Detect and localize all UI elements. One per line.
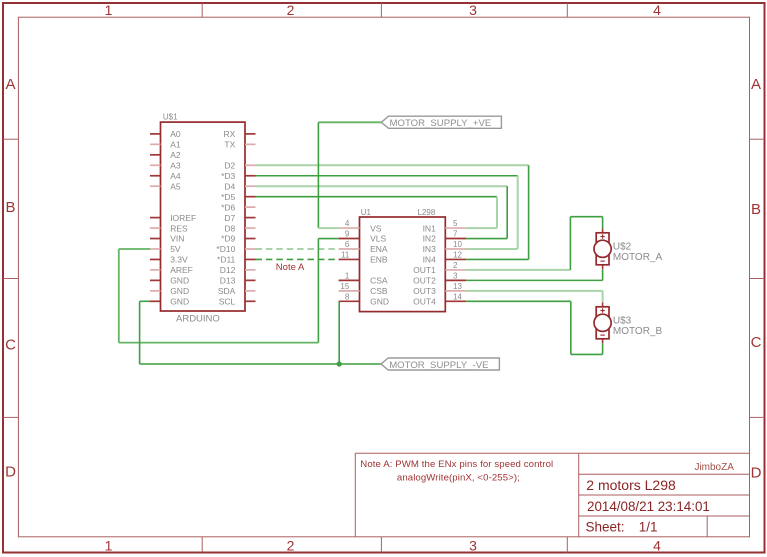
Arduino pin TX (right) — [245, 143, 256, 145]
svg-text:C: C — [5, 337, 16, 354]
Arduino pin D7 (right) — [245, 217, 256, 219]
motor U$2 MOTOR_A — [594, 229, 611, 270]
Arduino pin VIN (left) — [150, 238, 161, 240]
wire OUT4 to MOTOR_B - — [466, 300, 571, 302]
svg-text:MOTOR_SUPPLY_+VE: MOTOR_SUPPLY_+VE — [390, 118, 492, 129]
svg-text:*D9: *D9 — [221, 234, 235, 244]
svg-text:Note A: Note A — [276, 262, 305, 273]
svg-text:RX: RX — [223, 129, 235, 139]
Arduino pin A1 (left) — [150, 143, 161, 145]
svg-text:7: 7 — [453, 230, 458, 239]
junction dot — [337, 361, 342, 366]
Arduino pin A0 (left) — [150, 133, 161, 135]
svg-text:*D5: *D5 — [221, 192, 235, 202]
wire *D11 to ENB (dashed) — [256, 258, 339, 260]
Arduino pin IOREF (left) — [150, 217, 161, 219]
L298 pin 12 IN4 (right) — [445, 258, 466, 260]
svg-text:1: 1 — [105, 538, 113, 554]
wire OUT3 to MOTOR_B + — [466, 290, 602, 292]
svg-text:5: 5 — [453, 219, 458, 228]
svg-text:D2: D2 — [224, 160, 235, 170]
svg-text:2: 2 — [453, 261, 458, 270]
svg-text:12: 12 — [453, 250, 462, 259]
Arduino pin GND (left) — [150, 290, 161, 292]
L298 pin 4 VS (left) — [339, 227, 360, 229]
svg-text:U$3: U$3 — [613, 315, 632, 326]
svg-text:Sheet:: Sheet: — [586, 520, 625, 535]
Arduino pin A4 (left) — [150, 175, 161, 177]
svg-text:*D11: *D11 — [217, 255, 236, 265]
svg-text:D12: D12 — [220, 265, 236, 275]
svg-text:GND: GND — [170, 286, 189, 296]
svg-text:MOTOR_B: MOTOR_B — [613, 326, 663, 337]
svg-text:B: B — [5, 199, 15, 216]
svg-text:A4: A4 — [170, 171, 181, 181]
svg-text:OUT2: OUT2 — [413, 276, 436, 286]
frame row tick marks — [3, 138, 18, 140]
svg-text:D8: D8 — [224, 223, 235, 233]
svg-text:14: 14 — [453, 292, 462, 301]
svg-text:A: A — [5, 76, 15, 93]
svg-text:JimboZA: JimboZA — [694, 462, 734, 473]
wire *D10 to ENA (dashed) — [256, 248, 339, 250]
svg-text:TX: TX — [224, 140, 235, 150]
svg-text:U$1: U$1 — [163, 112, 178, 121]
Arduino pin SCL (right) — [245, 300, 256, 302]
wire MOTOR_SUPPLY_+VE to VS — [318, 121, 381, 123]
svg-text:IN3: IN3 — [423, 244, 437, 254]
svg-text:IOREF: IOREF — [170, 213, 196, 223]
Arduino pin *D10 (right) — [245, 248, 256, 250]
svg-text:A3: A3 — [170, 160, 181, 170]
L298 pin 7 IN2 (right) — [445, 238, 466, 240]
svg-text:*D6: *D6 — [221, 202, 235, 212]
L298 pin 3 OUT2 (right) — [445, 279, 466, 281]
svg-text:GND: GND — [370, 297, 389, 307]
svg-text:2: 2 — [287, 2, 295, 18]
Arduino pin SDA (right) — [245, 290, 256, 292]
svg-text:3.3V: 3.3V — [170, 255, 188, 265]
Arduino pin *D3 (right) — [245, 175, 256, 177]
svg-text:1/1: 1/1 — [639, 520, 658, 535]
svg-text:A5: A5 — [170, 181, 181, 191]
L298 pin 15 CSB (left) — [339, 290, 360, 292]
svg-text:1: 1 — [105, 2, 113, 18]
supply flag MOTOR_SUPPLY_-VE — [381, 358, 499, 370]
svg-text:SCL: SCL — [219, 297, 236, 307]
L298 pin 2 OUT1 (right) — [445, 269, 466, 271]
wire D2 to IN4 net — [256, 164, 529, 166]
svg-text:3: 3 — [453, 271, 458, 280]
Arduino pin AREF (left) — [150, 269, 161, 271]
wire GND net to MOTOR_SUPPLY_-VE — [140, 300, 150, 302]
svg-text:IN1: IN1 — [423, 223, 437, 233]
svg-text:*D10: *D10 — [216, 244, 235, 254]
svg-text:AREF: AREF — [170, 265, 193, 275]
svg-text:OUT3: OUT3 — [413, 286, 436, 296]
L298 U1 box — [360, 217, 446, 312]
wire OUT1 to MOTOR_A + — [466, 269, 570, 271]
wire L298 GND pin 8 down to -VE rail — [338, 301, 340, 364]
Arduino pin *D11 (right) — [245, 258, 256, 260]
L298 pin 8 GND (left) — [339, 300, 360, 302]
wire D3 to IN3 net — [256, 175, 518, 177]
svg-text:OUT4: OUT4 — [413, 297, 436, 307]
wire D4 to IN2 net — [256, 185, 508, 187]
Arduino pin D4 (right) — [245, 185, 256, 187]
svg-text:10: 10 — [453, 240, 462, 249]
svg-text:D: D — [5, 464, 16, 481]
svg-text:A1: A1 — [170, 140, 181, 150]
svg-text:D: D — [751, 465, 762, 482]
svg-text:2014/08/21 23:14:01: 2014/08/21 23:14:01 — [587, 499, 710, 514]
Arduino pin A5 (left) — [150, 185, 161, 187]
svg-text:IN4: IN4 — [423, 255, 437, 265]
svg-text:IN2: IN2 — [423, 234, 437, 244]
svg-text:9: 9 — [345, 230, 350, 239]
svg-text:U1: U1 — [361, 208, 372, 217]
Arduino pin 3.3V (left) — [150, 258, 161, 260]
svg-text:GND: GND — [170, 276, 189, 286]
svg-text:MOTOR_A: MOTOR_A — [613, 252, 663, 263]
svg-text:Note A: PWM the ENx pins for s: Note A: PWM the ENx pins for speed contr… — [360, 459, 553, 470]
svg-text:CSA: CSA — [370, 276, 388, 286]
svg-text:3: 3 — [469, 538, 477, 554]
Arduino pin *D9 (right) — [245, 238, 256, 240]
svg-text:5V: 5V — [170, 244, 181, 254]
svg-text:D13: D13 — [220, 276, 236, 286]
svg-text:4: 4 — [653, 2, 661, 18]
svg-text:4: 4 — [345, 219, 350, 228]
svg-text:L298: L298 — [418, 208, 436, 217]
svg-text:4: 4 — [653, 538, 661, 554]
svg-text:A2: A2 — [170, 150, 181, 160]
svg-text:*D3: *D3 — [221, 171, 235, 181]
svg-text:CSB: CSB — [370, 286, 388, 296]
motor U$3 MOTOR_B — [594, 303, 611, 344]
frame column tick marks — [201, 3, 203, 17]
Arduino pin D12 (right) — [245, 269, 256, 271]
svg-text:VIN: VIN — [170, 234, 184, 244]
L298 pin 13 OUT3 (right) — [445, 290, 466, 292]
svg-text:ENA: ENA — [370, 244, 388, 254]
L298 pin 9 VLS (left) — [339, 238, 360, 240]
svg-text:D7: D7 — [224, 213, 235, 223]
svg-text:RES: RES — [170, 223, 188, 233]
svg-text:ENB: ENB — [370, 255, 388, 265]
Arduino pin 5V (left) — [150, 248, 161, 250]
svg-text:U$2: U$2 — [613, 241, 632, 252]
svg-text:D4: D4 — [224, 181, 235, 191]
svg-text:3: 3 — [469, 2, 477, 18]
svg-text:B: B — [751, 201, 761, 218]
svg-text:2: 2 — [287, 538, 295, 554]
Arduino pin RX (right) — [245, 133, 256, 135]
L298 pin 5 IN1 (right) — [445, 227, 466, 229]
svg-text:VS: VS — [370, 223, 382, 233]
Arduino pin D13 (right) — [245, 279, 256, 281]
Arduino pin *D5 (right) — [245, 196, 256, 198]
L298 pin 1 CSA (left) — [339, 279, 360, 281]
L298 pin 10 IN3 (right) — [445, 248, 466, 250]
svg-text:GND: GND — [170, 297, 189, 307]
svg-text:OUT1: OUT1 — [413, 265, 436, 275]
svg-text:SDA: SDA — [218, 286, 236, 296]
Arduino pin RES (left) — [150, 227, 161, 229]
svg-text:MOTOR_SUPPLY_-VE: MOTOR_SUPPLY_-VE — [389, 360, 488, 371]
svg-text:C: C — [751, 334, 762, 351]
svg-text:VLS: VLS — [370, 234, 386, 244]
Arduino pin A2 (left) — [150, 154, 161, 156]
Arduino pin GND (left) — [150, 300, 161, 302]
wire OUT2 to MOTOR_A - — [602, 269, 604, 280]
Arduino pin GND (left) — [150, 279, 161, 281]
svg-text:15: 15 — [340, 282, 349, 291]
svg-text:analogWrite(pinX, <0-255>);: analogWrite(pinX, <0-255>); — [397, 473, 520, 484]
Arduino pin *D6 (right) — [245, 206, 256, 208]
Arduino pin D2 (right) — [245, 164, 256, 166]
Arduino pin D8 (right) — [245, 227, 256, 229]
supply flag MOTOR_SUPPLY_+VE — [381, 116, 501, 128]
wire 5V to VLS — [318, 238, 338, 240]
svg-text:2 motors L298: 2 motors L298 — [586, 477, 676, 493]
Arduino pin A3 (left) — [150, 164, 161, 166]
svg-text:A: A — [751, 76, 761, 93]
svg-text:8: 8 — [345, 292, 350, 301]
svg-text:A0: A0 — [170, 129, 181, 139]
svg-text:11: 11 — [341, 250, 350, 259]
svg-text:1: 1 — [345, 271, 350, 280]
svg-text:6: 6 — [345, 240, 350, 249]
L298 pin 6 ENA (left) — [339, 248, 360, 250]
wire D5 to IN1 net — [256, 196, 498, 198]
svg-text:13: 13 — [453, 282, 462, 291]
L298 pin 14 OUT4 (right) — [445, 300, 466, 302]
Arduino U$1 box — [161, 122, 246, 311]
L298 pin 11 ENB (left) — [339, 258, 360, 260]
title block border lines — [355, 452, 749, 454]
svg-text:ARDUINO: ARDUINO — [176, 313, 220, 324]
